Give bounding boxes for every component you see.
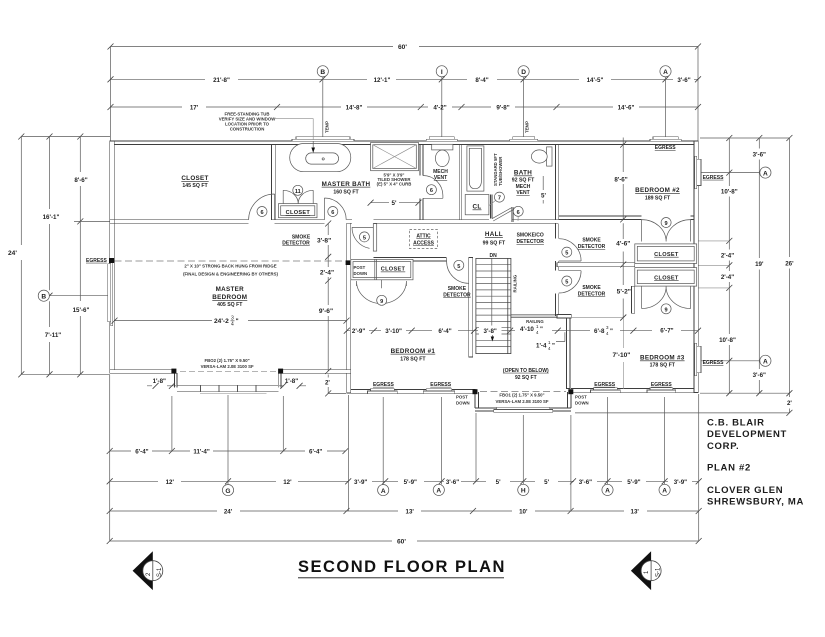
svg-text:3'-6": 3'-6" xyxy=(753,372,766,379)
svg-text:": " xyxy=(540,326,543,333)
svg-text:": " xyxy=(236,318,239,325)
svg-text:H: H xyxy=(521,488,526,495)
wall bath hall corner xyxy=(491,195,513,223)
dimension line 8-6 / 15-6 xyxy=(73,134,90,378)
wall master bedroom bottom right xyxy=(281,370,351,373)
svg-text:BEDROOM #1: BEDROOM #1 xyxy=(391,348,436,355)
post down bay right xyxy=(278,369,283,374)
wall master bedroom1 divider xyxy=(347,223,351,393)
window bedroom3 egress2 xyxy=(647,388,676,393)
dim vertical chain 3-8 2-4 9-6 xyxy=(325,221,331,375)
svg-text:B: B xyxy=(320,69,325,76)
wall left exterior xyxy=(110,141,114,373)
door 6 closet room xyxy=(249,194,275,220)
svg-text:D: D xyxy=(521,69,526,76)
svg-text:HALL: HALL xyxy=(485,231,503,238)
svg-text:6'-4": 6'-4" xyxy=(309,449,322,456)
wall interior horizontal main xyxy=(110,220,558,224)
svg-text:405 SQ FT: 405 SQ FT xyxy=(217,302,243,308)
svg-text:ACCESS: ACCESS xyxy=(413,241,435,247)
door 6 mech vent xyxy=(423,176,443,199)
svg-text:9'-6": 9'-6" xyxy=(319,308,333,315)
company text block xyxy=(707,418,804,508)
bay window jog master xyxy=(175,373,281,387)
svg-text:SMOKE: SMOKE xyxy=(448,286,467,292)
svg-text:4'-2": 4'-2" xyxy=(433,105,446,112)
fbo1 note xyxy=(480,392,566,404)
svg-text:PLAN #2: PLAN #2 xyxy=(707,462,751,473)
door 9 bedroom1 closet double xyxy=(357,280,407,306)
svg-text:CLOSET: CLOSET xyxy=(654,252,679,258)
dimension 60 feet bottom xyxy=(107,538,702,546)
svg-text:4: 4 xyxy=(231,322,234,328)
smoke co detector label xyxy=(516,233,544,246)
right vertical dim line inner xyxy=(719,135,738,396)
svg-text:RAILING: RAILING xyxy=(513,274,518,292)
mini dimension 1-8 left xyxy=(147,378,176,389)
window bath xyxy=(510,137,538,142)
svg-text:VERSA-LAM 2.0E 3100 SF: VERSA-LAM 2.0E 3100 SF xyxy=(201,364,254,369)
svg-text:BEDROOM #2: BEDROOM #2 xyxy=(635,187,680,194)
grid circle A top xyxy=(660,66,671,141)
svg-text:MASTER BATH: MASTER BATH xyxy=(322,181,371,188)
grid circle A bottom4 xyxy=(659,484,670,495)
closet bedroom1 box xyxy=(351,259,413,279)
window bedroom1 egress2 xyxy=(423,389,455,394)
dim 24-2-3/4 master xyxy=(112,316,350,328)
svg-text:FBO1 (2) 1.75" X 9.50": FBO1 (2) 1.75" X 9.50" xyxy=(499,393,544,398)
room label closet xyxy=(181,175,208,189)
railing L bracket xyxy=(556,332,565,341)
wall stair left xyxy=(469,258,473,358)
svg-text:SMOKE: SMOKE xyxy=(582,285,601,291)
dimension line 16-1 / 7-11 xyxy=(43,134,62,378)
svg-text:CLOSET: CLOSET xyxy=(381,267,406,273)
svg-text:TEMP: TEMP xyxy=(525,121,530,133)
svg-text:POST: POST xyxy=(456,395,468,400)
svg-text:DETECTOR: DETECTOR xyxy=(443,292,471,298)
svg-text:14'-6": 14'-6" xyxy=(618,105,635,112)
dim 7-10 xyxy=(608,350,636,360)
svg-text:60': 60' xyxy=(397,539,406,546)
svg-text:4'-6": 4'-6" xyxy=(616,241,630,248)
svg-text:15'-6": 15'-6" xyxy=(73,307,90,314)
svg-text:4'-10: 4'-10 xyxy=(520,326,534,333)
svg-text:6'-4": 6'-4" xyxy=(438,328,451,335)
dimension row2 line xyxy=(108,76,702,84)
attic access box xyxy=(410,230,438,249)
dimension row3 line xyxy=(108,104,702,112)
svg-text:(FINAL DESIGN & ENGINEERING BY: (FINAL DESIGN & ENGINEERING BY OTHERS) xyxy=(183,271,278,276)
svg-text:3'-6": 3'-6" xyxy=(753,152,766,159)
wall bedroom2 bottom xyxy=(558,216,694,220)
svg-text:SMOKE/CO: SMOKE/CO xyxy=(517,233,544,239)
svg-text:2'-4": 2'-4" xyxy=(721,274,734,281)
svg-text:EGRESS: EGRESS xyxy=(651,382,673,388)
svg-text:60': 60' xyxy=(398,44,407,51)
svg-text:I: I xyxy=(441,69,443,76)
dim 8-6 bedroom2 xyxy=(614,138,627,223)
wall mech bath divider xyxy=(459,145,462,220)
wall closet and masterbath divider xyxy=(271,145,275,220)
svg-text:": " xyxy=(610,328,613,335)
svg-text:EGRESS: EGRESS xyxy=(594,382,616,388)
window mech vent xyxy=(426,137,457,142)
svg-text:17': 17' xyxy=(190,105,199,112)
svg-text:12': 12' xyxy=(283,479,292,486)
svg-text:10': 10' xyxy=(519,509,528,516)
svg-text:TUB/SHOWER: TUB/SHOWER xyxy=(498,156,503,186)
svg-text:S-1: S-1 xyxy=(157,567,163,577)
master bedroom label xyxy=(212,286,247,308)
svg-text:5: 5 xyxy=(363,235,366,241)
door 7 bath diagonal xyxy=(489,192,513,221)
svg-text:BEDROOM #3: BEDROOM #3 xyxy=(640,355,685,362)
svg-text:POST: POST xyxy=(575,395,587,400)
smoke detector bedroom2 xyxy=(578,223,631,320)
svg-text:A: A xyxy=(763,359,768,366)
right vertical dim line middle 19ft xyxy=(753,135,766,396)
window above tub xyxy=(292,137,354,142)
mini dimension 2 feet xyxy=(325,375,346,397)
svg-text:EGRESS: EGRESS xyxy=(430,382,452,388)
svg-text:SHREWSBURY, MA: SHREWSBURY, MA xyxy=(707,497,804,508)
door 9 bedroom2 closet double xyxy=(642,218,691,242)
grid circle H bottom xyxy=(518,484,529,495)
svg-text:11'-4": 11'-4" xyxy=(193,449,210,456)
room label master bath xyxy=(322,181,371,196)
grid circle D top xyxy=(518,66,529,141)
svg-text:SECOND FLOOR PLAN: SECOND FLOOR PLAN xyxy=(298,558,506,576)
svg-text:A: A xyxy=(436,488,441,495)
svg-text:A: A xyxy=(381,488,386,495)
svg-text:POST: POST xyxy=(354,265,366,270)
grid circle I top xyxy=(436,66,447,141)
toilet mech vent xyxy=(432,144,453,166)
WINDOWS xyxy=(108,137,701,413)
svg-text:DN: DN xyxy=(489,253,497,259)
window bedroom3 right egress xyxy=(694,343,701,375)
svg-text:11: 11 xyxy=(295,189,301,195)
mech vent label xyxy=(433,169,448,181)
bedroom2 label xyxy=(635,187,680,202)
dim 7-10 extension lines xyxy=(560,315,626,389)
svg-text:7: 7 xyxy=(498,196,501,202)
post down bay left xyxy=(171,369,176,374)
bay open-below walls xyxy=(475,392,571,411)
dim 1-4-1/4 xyxy=(536,340,555,351)
svg-text:1'-8": 1'-8" xyxy=(285,378,298,385)
svg-text:6: 6 xyxy=(331,210,334,216)
dim 5 feet bath xyxy=(541,176,546,204)
svg-text:VENT: VENT xyxy=(434,175,447,181)
window bedroom1 egress1 xyxy=(368,389,398,394)
svg-text:189 SQ FT: 189 SQ FT xyxy=(645,196,671,202)
svg-text:A: A xyxy=(605,488,610,495)
svg-text:92 SQ FT: 92 SQ FT xyxy=(515,375,537,381)
TITLE AND MARKERS xyxy=(133,418,804,591)
svg-text:13': 13' xyxy=(406,509,415,516)
svg-text:6: 6 xyxy=(260,210,263,216)
window bedroom3 egress1 xyxy=(591,388,621,393)
svg-text:21'-8": 21'-8" xyxy=(213,77,230,84)
bath label xyxy=(512,170,535,197)
left extension lines xyxy=(21,137,112,375)
svg-text:3'-8": 3'-8" xyxy=(317,238,331,245)
wall bedroom3 left xyxy=(566,318,570,389)
grid circle A right top xyxy=(701,167,771,178)
door 5 master bedroom xyxy=(352,224,377,252)
smoke detector hall label xyxy=(282,235,331,247)
right extension lines xyxy=(575,138,789,413)
svg-text:16'-1": 16'-1" xyxy=(43,214,60,221)
door 5 upper right hall xyxy=(559,239,581,261)
svg-text:8'-6": 8'-6" xyxy=(614,177,627,184)
svg-text:3'-9": 3'-9" xyxy=(674,479,687,486)
svg-text:CONSTRUCTION: CONSTRUCTION xyxy=(230,127,265,132)
svg-text:2'-4": 2'-4" xyxy=(320,270,334,277)
svg-text:3'-9": 3'-9" xyxy=(354,479,367,486)
svg-text:EGRESS: EGRESS xyxy=(373,382,395,388)
strongback dashed line xyxy=(115,261,347,276)
wall closets left vertical xyxy=(631,286,634,313)
door 6 bath right xyxy=(513,206,523,221)
wall bedroom3 bottom xyxy=(571,389,694,393)
svg-text:145 SQ FT: 145 SQ FT xyxy=(182,183,208,189)
svg-text:5': 5' xyxy=(392,200,397,207)
svg-text:6: 6 xyxy=(517,210,520,216)
svg-text:5'-2": 5'-2" xyxy=(617,289,631,296)
svg-text:8'-4": 8'-4" xyxy=(475,77,488,84)
svg-text:CORP.: CORP. xyxy=(707,441,739,452)
grid circle B left xyxy=(38,290,110,301)
section marker right xyxy=(631,551,661,590)
svg-text:2'-4": 2'-4" xyxy=(721,252,734,259)
smoke detector bedroom3 xyxy=(578,285,631,297)
svg-text:SMOKE: SMOKE xyxy=(582,238,601,244)
svg-text:DOWN: DOWN xyxy=(354,271,368,276)
svg-text:19': 19' xyxy=(755,261,764,268)
dimension 24 feet left xyxy=(8,134,24,378)
svg-text:VENT: VENT xyxy=(516,190,529,196)
wall right exterior xyxy=(694,141,698,392)
svg-text:24': 24' xyxy=(8,250,17,257)
svg-text:26': 26' xyxy=(785,260,794,267)
window left egress master xyxy=(108,258,115,326)
grid circle G bottom xyxy=(222,485,233,496)
svg-text:6: 6 xyxy=(430,188,433,194)
FIXTURES xyxy=(279,141,697,389)
free-standing tub xyxy=(290,141,351,172)
dimension 60 feet top line xyxy=(108,44,702,142)
svg-text:(E) 5" X 4" CURB: (E) 5" X 4" CURB xyxy=(377,182,412,187)
wall top exterior xyxy=(110,141,698,145)
WALLS xyxy=(110,141,698,411)
svg-text:CL: CL xyxy=(473,204,482,211)
svg-text:9: 9 xyxy=(665,307,668,313)
svg-text:1'-8": 1'-8" xyxy=(153,378,166,385)
svg-text:14'-5": 14'-5" xyxy=(587,77,604,84)
tiled shower xyxy=(371,143,419,171)
svg-text:G: G xyxy=(225,488,230,495)
svg-text:10'-8": 10'-8" xyxy=(721,189,738,196)
post down master xyxy=(346,260,368,276)
svg-text:9'-8": 9'-8" xyxy=(496,105,509,112)
door 9 bedroom3 closet double xyxy=(642,286,691,314)
svg-text:FBO2 (2) 1.75" X 9.50": FBO2 (2) 1.75" X 9.50" xyxy=(205,358,250,363)
svg-text:CLOVER GLEN: CLOVER GLEN xyxy=(707,485,783,496)
fbo2 note xyxy=(180,358,276,372)
open to below label xyxy=(503,368,549,381)
bottom extension lines xyxy=(110,375,699,541)
svg-text:7'-11": 7'-11" xyxy=(45,332,62,339)
svg-text:A: A xyxy=(763,170,768,177)
svg-text:EGRESS: EGRESS xyxy=(703,175,725,181)
closet bedroom2 box xyxy=(635,244,697,264)
svg-text:DETECTOR: DETECTOR xyxy=(578,292,606,298)
svg-text:5': 5' xyxy=(496,479,501,486)
svg-text:B: B xyxy=(41,293,46,300)
wall bedroom1 top xyxy=(373,258,446,261)
svg-text:TEMP: TEMP xyxy=(325,121,330,133)
svg-text:A: A xyxy=(662,488,667,495)
smoke detector bedroom1 xyxy=(443,286,471,298)
post down bedroom1 xyxy=(456,389,478,405)
svg-text:C.B. BLAIR: C.B. BLAIR xyxy=(707,418,765,429)
svg-text:12': 12' xyxy=(166,479,175,486)
mini dimension 1-8 right xyxy=(279,378,306,389)
grid circle A right bottom xyxy=(701,355,771,366)
svg-text:5: 5 xyxy=(457,264,460,270)
shower note xyxy=(377,173,412,187)
wall bedroom3 top stub xyxy=(557,315,571,319)
svg-text:14'-8": 14'-8" xyxy=(346,105,363,112)
wall hall bedroom2 vertical xyxy=(555,223,558,316)
svg-text:24'-2: 24'-2 xyxy=(214,318,229,325)
svg-text:24': 24' xyxy=(224,509,233,516)
grid circle A bottom2 xyxy=(433,484,444,495)
svg-text:5': 5' xyxy=(541,193,546,200)
section marker left xyxy=(133,551,163,590)
svg-text:CLOSET: CLOSET xyxy=(654,275,679,281)
svg-text:160 SQ FT: 160 SQ FT xyxy=(333,189,359,195)
svg-text:9: 9 xyxy=(380,299,383,305)
svg-text:5'-9": 5'-9" xyxy=(404,479,417,486)
svg-text:1'-4: 1'-4 xyxy=(536,343,547,350)
dimension row 6-4 11-4 6-4 xyxy=(107,448,349,456)
svg-text:DOWN: DOWN xyxy=(575,401,589,406)
title second floor plan xyxy=(298,558,506,578)
DOORS xyxy=(249,176,691,314)
svg-text:CLOSET: CLOSET xyxy=(181,175,208,182)
svg-text:2" X 10" STRONG BACK HUNG FROM: 2" X 10" STRONG BACK HUNG FROM RIDGE xyxy=(184,263,276,268)
closet bedroom3 box xyxy=(635,268,697,287)
door 5 lower right hall xyxy=(559,271,581,293)
svg-text:6'-7": 6'-7" xyxy=(660,327,673,334)
hall label xyxy=(483,231,506,246)
svg-text:5: 5 xyxy=(565,280,568,286)
closet hall small box xyxy=(465,195,489,215)
svg-text:7'-10": 7'-10" xyxy=(613,352,631,359)
svg-text:5: 5 xyxy=(565,251,568,257)
closet master bath box xyxy=(279,204,318,218)
svg-text:": " xyxy=(552,343,555,350)
grid circle A bottom1 xyxy=(378,485,389,496)
svg-text:99 SQ FT: 99 SQ FT xyxy=(483,240,506,246)
window open-below bay xyxy=(494,407,553,412)
svg-text:CLOSET: CLOSET xyxy=(286,210,311,216)
svg-text:S-1: S-1 xyxy=(655,567,661,577)
wall master bedroom bottom left xyxy=(110,370,174,373)
svg-text:5'-9": 5'-9" xyxy=(627,479,640,486)
svg-text:3'-8": 3'-8" xyxy=(484,328,497,335)
svg-text:3'-6": 3'-6" xyxy=(677,77,690,84)
door 6 master bath xyxy=(324,198,346,220)
bay window master bedroom xyxy=(177,385,278,393)
bath tub standard xyxy=(467,146,484,191)
svg-text:BEDROOM: BEDROOM xyxy=(212,294,247,301)
svg-text:2'-9": 2'-9" xyxy=(352,328,365,335)
wall between doors stub xyxy=(557,263,635,267)
dim 5 feet master bath xyxy=(368,200,422,208)
note free standing tub xyxy=(219,112,313,141)
svg-text:DETECTOR: DETECTOR xyxy=(578,244,606,250)
svg-text:2': 2' xyxy=(787,400,792,407)
svg-text:6'-4": 6'-4" xyxy=(135,449,148,456)
wall shower mech divider xyxy=(420,145,423,220)
svg-text:EGRESS: EGRESS xyxy=(703,360,725,366)
svg-text:(OPEN TO BELOW): (OPEN TO BELOW) xyxy=(503,368,549,374)
svg-text:DETECTOR: DETECTOR xyxy=(282,241,310,247)
svg-text:8'-6": 8'-6" xyxy=(74,177,87,184)
svg-text:3'-6": 3'-6" xyxy=(446,479,459,486)
svg-text:ATTIC: ATTIC xyxy=(416,234,431,240)
svg-text:DETECTOR: DETECTOR xyxy=(516,239,544,245)
svg-text:EGRESS: EGRESS xyxy=(655,145,677,151)
interior dim chain mid xyxy=(344,324,701,336)
svg-text:EGRESS: EGRESS xyxy=(86,258,108,264)
toilet bath xyxy=(531,147,552,166)
svg-text:9: 9 xyxy=(665,221,668,227)
svg-text:3'-6": 3'-6" xyxy=(579,479,592,486)
svg-text:VERSA-LAM 2.0E 3100 SF: VERSA-LAM 2.0E 3100 SF xyxy=(495,399,548,404)
svg-text:3'-10": 3'-10" xyxy=(385,328,402,335)
bedroom3 label xyxy=(640,355,685,369)
svg-text:13': 13' xyxy=(631,509,640,516)
svg-text:2': 2' xyxy=(325,379,330,386)
door 11 closet double xyxy=(283,185,313,203)
wall bath bedroom2 divider xyxy=(555,145,558,220)
grid circle B top xyxy=(317,66,328,141)
wall bedroom1 bottom xyxy=(351,390,476,394)
svg-text:10'-8": 10'-8" xyxy=(719,337,736,344)
svg-text:DOWN: DOWN xyxy=(456,401,470,406)
stairs xyxy=(476,258,511,353)
window bedroom2 top egress xyxy=(650,137,681,142)
svg-text:BATH: BATH xyxy=(514,170,532,177)
window bedroom2 right egress xyxy=(694,156,701,188)
post down bedroom3 xyxy=(568,389,588,405)
svg-text:12'-1": 12'-1" xyxy=(374,77,391,84)
bedroom1 label xyxy=(391,348,436,363)
svg-text:92 SQ FT: 92 SQ FT xyxy=(512,178,535,184)
right vertical dim line outer 26ft xyxy=(785,135,794,416)
railing open below xyxy=(511,315,557,317)
svg-text:MASTER: MASTER xyxy=(216,286,245,293)
door 5 bedroom1 xyxy=(447,258,469,283)
svg-text:178 SQ FT: 178 SQ FT xyxy=(650,363,676,369)
grid circle A bottom3 xyxy=(602,484,613,495)
